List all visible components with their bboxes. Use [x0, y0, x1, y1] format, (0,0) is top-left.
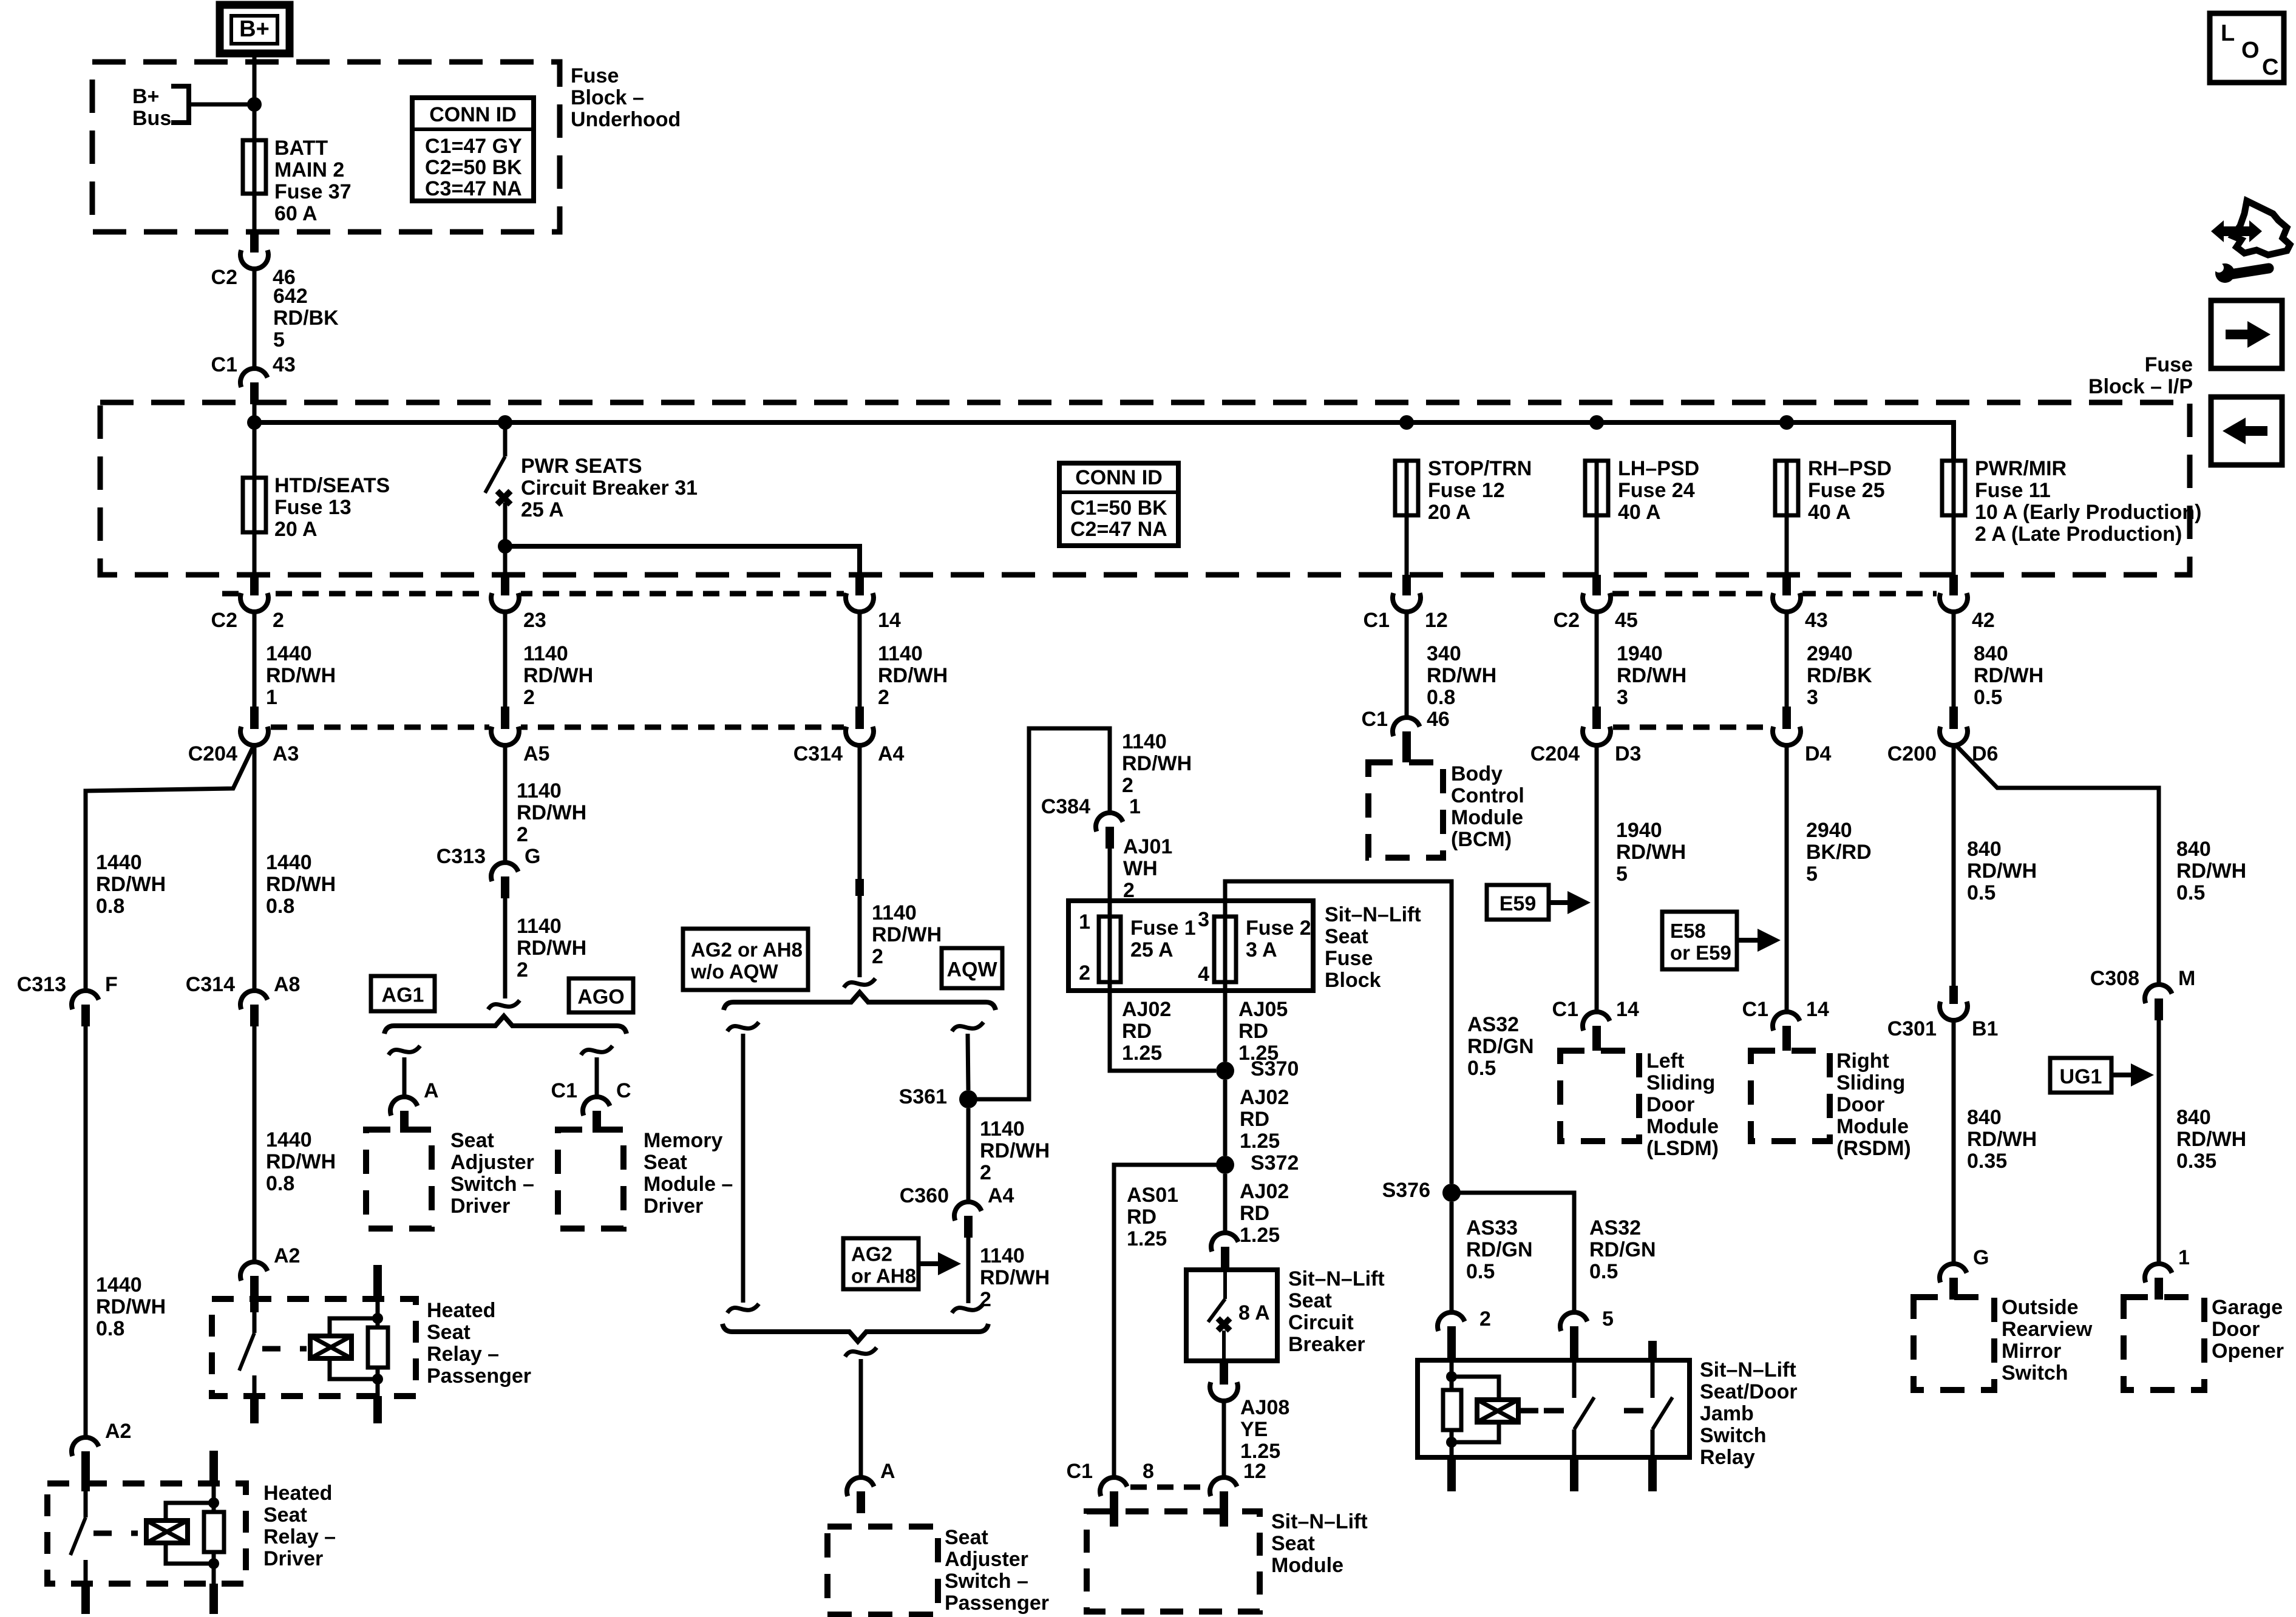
wire 43 to D4: [1785, 611, 1789, 707]
svg-text:RD/WH: RD/WH: [96, 873, 166, 896]
wire A4 stub thin: [858, 896, 862, 977]
wire C360 down: [966, 1238, 971, 1303]
code box AG2 or AH8 w/o AQW: [683, 929, 808, 990]
jamb relay linkage dash: [1518, 1408, 1643, 1414]
connector pin A (seat adjuster passenger): [847, 1460, 895, 1513]
relay driver coil loop bottom: [166, 1543, 214, 1564]
fuse 13 HTD/SEATS: [243, 478, 266, 532]
svg-text:0.5: 0.5: [1467, 1057, 1496, 1080]
wire 340 to C1 46: [1405, 611, 1409, 718]
connector A2 passenger: [240, 1244, 300, 1298]
wire 642 RD/BK 5: [253, 268, 257, 368]
connector C204 pin D3: [1530, 707, 1642, 765]
svg-text:C204: C204: [188, 742, 237, 765]
connector C313 pin F: [17, 973, 118, 1026]
outside rearview mirror switch box: [1914, 1297, 1994, 1390]
svg-text:0.8: 0.8: [1427, 686, 1455, 709]
wire C2-2 to C204-A3: [253, 611, 257, 707]
sit-n-lift seat module box: [1087, 1511, 1260, 1612]
svg-text:AJ02: AJ02: [1240, 1086, 1289, 1109]
connector C204 pin A3: [188, 707, 299, 765]
connector pin 5: [1560, 1312, 1588, 1360]
wire 14 to A4: [858, 611, 862, 707]
wire D6 branch right: [1956, 745, 2159, 986]
svg-text:5: 5: [1616, 863, 1628, 886]
svg-text:840: 840: [1967, 838, 2002, 861]
svg-text:60 A: 60 A: [274, 202, 318, 225]
svg-text:2940: 2940: [1806, 819, 1852, 842]
svg-text:1: 1: [1079, 910, 1090, 934]
splice S370: [1216, 1062, 1234, 1080]
svg-text:Seat: Seat: [945, 1526, 988, 1549]
svg-text:14: 14: [1616, 998, 1639, 1021]
svg-text:MAIN 2: MAIN 2: [274, 158, 344, 181]
code box AG2 or AH8: [843, 1238, 919, 1289]
heated seat relay - passenger box: [212, 1299, 416, 1396]
svg-text:C1: C1: [1067, 1460, 1093, 1483]
wire left drop long: [741, 1034, 746, 1303]
svg-text:Right: Right: [1836, 1049, 1889, 1073]
svg-text:Fuse 2: Fuse 2: [1246, 917, 1311, 940]
relay driver resistor: [204, 1512, 224, 1552]
svg-text:10 A (Early Production): 10 A (Early Production): [1975, 501, 2201, 524]
svg-text:Seat: Seat: [1325, 925, 1368, 948]
svg-text:C313: C313: [436, 845, 486, 868]
svg-text:2: 2: [517, 823, 528, 846]
svg-text:4: 4: [1198, 963, 1209, 986]
svg-text:AJ02: AJ02: [1240, 1180, 1289, 1203]
svg-text:Sit–N–Lift: Sit–N–Lift: [1288, 1267, 1385, 1290]
svg-text:12: 12: [1425, 609, 1448, 632]
jamb relay bottom junction: [1446, 1437, 1457, 1448]
brace AG1/AGO: [384, 1016, 627, 1034]
wire A3 split diagonal: [86, 744, 254, 992]
svg-text:1140: 1140: [1122, 730, 1167, 753]
wire AS33 down: [1450, 1202, 1454, 1314]
svg-text:A2: A2: [105, 1420, 131, 1443]
svg-text:1.25: 1.25: [1240, 1224, 1280, 1247]
LOC legend box: [2210, 13, 2284, 83]
svg-text:1440: 1440: [96, 851, 142, 874]
svg-text:C313: C313: [17, 973, 66, 996]
svg-text:A4: A4: [988, 1184, 1014, 1207]
svg-text:BATT: BATT: [274, 137, 328, 160]
connector pin 12: [1210, 1477, 1237, 1527]
fuse 11 PWR/MIR: [1942, 461, 1965, 515]
jamb relay left out: [1450, 1442, 1454, 1457]
hook above brace AG1: [488, 1000, 520, 1009]
svg-text:0.5: 0.5: [1974, 686, 2002, 709]
hook above brace AQW: [844, 978, 875, 988]
svg-text:Seat: Seat: [644, 1151, 687, 1174]
svg-text:AGO: AGO: [577, 986, 624, 1009]
svg-text:w/o AQW: w/o AQW: [690, 960, 778, 983]
svg-text:20 A: 20 A: [1428, 501, 1471, 524]
svg-text:Relay –: Relay –: [263, 1525, 336, 1548]
svg-text:YE: YE: [1240, 1418, 1268, 1441]
relay driver coil feed stub: [209, 1451, 218, 1483]
svg-text:2: 2: [273, 609, 284, 632]
svg-text:8: 8: [1143, 1460, 1154, 1483]
svg-text:RD/WH: RD/WH: [517, 937, 586, 960]
svg-text:C3=47 NA: C3=47 NA: [425, 177, 522, 200]
svg-text:Jamb: Jamb: [1700, 1402, 1754, 1425]
svg-text:Sliding: Sliding: [1646, 1071, 1715, 1094]
sit-n-lift seat/door jamb switch relay box: [1418, 1360, 1690, 1457]
svg-text:1140: 1140: [878, 642, 923, 665]
svg-text:Control: Control: [1451, 784, 1524, 807]
svg-text:C1=50 BK: C1=50 BK: [1070, 497, 1167, 520]
svg-text:F: F: [105, 973, 118, 996]
junction B+ bus: [247, 97, 262, 112]
svg-text:0.5: 0.5: [1589, 1260, 1618, 1283]
relay passenger resistor wire2: [376, 1368, 380, 1379]
connector pin 43: [1773, 575, 1828, 632]
svg-text:RD/WH: RD/WH: [266, 1150, 336, 1173]
connector C2 pin 45: [1554, 575, 1638, 632]
svg-text:RD: RD: [1240, 1108, 1269, 1131]
connector pin G: [1940, 1246, 1989, 1300]
svg-text:AQW: AQW: [946, 958, 997, 981]
wire D6 down: [1952, 744, 1956, 986]
svg-text:B1: B1: [1972, 1017, 1998, 1040]
svg-text:D6: D6: [1972, 742, 1998, 765]
relay passenger coil out stub: [373, 1396, 382, 1423]
svg-text:Fuse: Fuse: [2145, 353, 2193, 376]
svg-text:AS32: AS32: [1589, 1216, 1641, 1239]
svg-text:840: 840: [1974, 642, 2008, 665]
svg-text:C1: C1: [1364, 609, 1390, 632]
svg-text:40 A: 40 A: [1618, 501, 1661, 524]
svg-text:RD/WH: RD/WH: [2176, 1128, 2246, 1151]
wire 45 to D3: [1595, 611, 1599, 707]
svg-text:Relay –: Relay –: [427, 1343, 499, 1366]
relay passenger top junction: [372, 1313, 383, 1324]
connector row short-dash right: [1612, 591, 1937, 597]
svg-text:L: L: [2221, 21, 2235, 46]
svg-text:46: 46: [1427, 708, 1450, 731]
fuse 24 LH-PSD: [1585, 461, 1608, 515]
connector C360 pin A4: [900, 1184, 1014, 1238]
svg-text:AG1: AG1: [382, 984, 424, 1007]
svg-text:Circuit: Circuit: [1288, 1311, 1354, 1334]
jamb relay resistor wire bottom: [1450, 1430, 1454, 1442]
relay driver coil wire top: [212, 1483, 216, 1503]
wire into fuse 13: [253, 402, 257, 478]
svg-text:Left: Left: [1646, 1049, 1684, 1073]
wire AJ08 YE: [1222, 1400, 1226, 1479]
svg-text:Sliding: Sliding: [1836, 1071, 1905, 1094]
svg-text:1440: 1440: [266, 1128, 312, 1151]
relay passenger coil: [310, 1336, 352, 1358]
svg-text:C2: C2: [1554, 609, 1580, 632]
jamb relay coil: [1477, 1400, 1518, 1422]
svg-text:RD/WH: RD/WH: [523, 664, 593, 687]
svg-text:Seat: Seat: [1271, 1532, 1315, 1555]
connector A2 driver: [72, 1420, 131, 1473]
connector pin 42: [1940, 575, 1995, 632]
svg-text:1140: 1140: [980, 1244, 1025, 1267]
svg-text:A3: A3: [273, 742, 299, 765]
wire F down: [84, 1026, 88, 1439]
svg-text:Heated: Heated: [263, 1482, 332, 1505]
svg-text:5: 5: [273, 328, 285, 351]
svg-text:Driver: Driver: [263, 1547, 323, 1570]
wire 2940 D4 down: [1785, 744, 1789, 1013]
svg-text:1440: 1440: [266, 642, 312, 665]
svg-text:G: G: [525, 845, 540, 868]
svg-text:(BCM): (BCM): [1451, 828, 1512, 851]
svg-text:RD: RD: [1122, 1020, 1152, 1043]
svg-text:0.8: 0.8: [96, 895, 124, 918]
svg-text:Fuse 24: Fuse 24: [1618, 479, 1695, 502]
svg-text:2 A (Late Production): 2 A (Late Production): [1975, 523, 2182, 546]
wire AJ05 fuse2 out: [1223, 982, 1228, 1062]
wire A8 down: [253, 1026, 257, 1263]
svg-text:2: 2: [980, 1161, 991, 1184]
relay driver linkage dash: [93, 1531, 138, 1536]
sit-n-lift seat fuse block box: [1068, 901, 1313, 991]
svg-text:8 A: 8 A: [1238, 1301, 1270, 1324]
svg-text:14: 14: [1806, 998, 1829, 1021]
module row short-dash: [1130, 1485, 1209, 1490]
relay passenger resistor wire: [376, 1318, 380, 1327]
svg-text:E58: E58: [1670, 920, 1706, 942]
fuse block - underhood dashed box: [92, 62, 560, 232]
relay driver coil: [146, 1520, 188, 1543]
wire fuse 11 out: [1952, 515, 1956, 575]
wire AJ02 S370-S372: [1223, 1080, 1228, 1156]
arrow left legend box: [2211, 397, 2282, 465]
hook bottom left drop: [727, 1304, 759, 1313]
svg-text:1: 1: [266, 686, 277, 709]
svg-text:5: 5: [1806, 863, 1818, 886]
splice S372: [1216, 1156, 1234, 1174]
code box E58 or E59: [1662, 912, 1737, 969]
wire M down: [2157, 1020, 2161, 1265]
svg-text:S361: S361: [899, 1085, 947, 1108]
svg-text:AJ05: AJ05: [1238, 998, 1288, 1021]
svg-text:RD/BK: RD/BK: [273, 307, 339, 330]
svg-text:1940: 1940: [1617, 642, 1663, 665]
svg-text:HTD/SEATS: HTD/SEATS: [274, 474, 390, 497]
svg-text:Breaker: Breaker: [1288, 1333, 1365, 1356]
left sliding door module box: [1560, 1051, 1639, 1141]
svg-text:AS32: AS32: [1467, 1013, 1519, 1036]
svg-text:RD/GN: RD/GN: [1589, 1238, 1656, 1261]
svg-text:B+: B+: [239, 16, 270, 42]
svg-text:A: A: [424, 1079, 439, 1102]
wire right drop to S361: [968, 1034, 968, 1090]
svg-text:43: 43: [1805, 609, 1828, 632]
conn id table underhood: [412, 98, 534, 201]
svg-text:Garage: Garage: [2212, 1296, 2283, 1319]
svg-text:1.25: 1.25: [1122, 1042, 1162, 1065]
svg-text:3 A: 3 A: [1246, 938, 1277, 961]
svg-text:0.35: 0.35: [1967, 1150, 2007, 1173]
jamb relay coil branch: [1450, 1360, 1454, 1372]
connector pin A5: [491, 707, 549, 765]
svg-text:RD/WH: RD/WH: [266, 873, 336, 896]
jamb relay resistor wire top: [1450, 1377, 1454, 1390]
svg-text:Passenger: Passenger: [945, 1592, 1049, 1615]
svg-text:Memory: Memory: [644, 1129, 722, 1152]
fuse 1 25A: [1099, 917, 1121, 982]
svg-text:A: A: [880, 1460, 895, 1483]
svg-text:3: 3: [1198, 908, 1209, 931]
connector C1 pin 8: [1100, 1477, 1127, 1527]
svg-text:Switch: Switch: [2002, 1361, 2068, 1385]
svg-text:AJ02: AJ02: [1122, 998, 1171, 1021]
wire G down: [503, 898, 508, 998]
svg-text:0.35: 0.35: [2176, 1150, 2216, 1173]
svg-text:Sit–N–Lift: Sit–N–Lift: [1271, 1510, 1368, 1533]
connector C313 pin G: [436, 845, 541, 898]
garage door opener box: [2124, 1297, 2204, 1390]
svg-text:G: G: [1973, 1246, 1989, 1269]
brace collect to A: [722, 1324, 988, 1341]
svg-text:3: 3: [1617, 686, 1628, 709]
svg-text:C301: C301: [1887, 1017, 1937, 1040]
heated seat relay - driver box: [47, 1483, 246, 1584]
svg-text:AJ01: AJ01: [1123, 835, 1172, 858]
connector pin 1: [2145, 1246, 2190, 1300]
svg-text:2: 2: [523, 686, 535, 709]
svg-text:Bus: Bus: [132, 107, 171, 130]
svg-text:Switch –: Switch –: [945, 1570, 1028, 1593]
fuse block - I/P dashed box: [100, 402, 2190, 575]
wire A4 stub above brace: [855, 879, 864, 896]
svg-text:0.8: 0.8: [266, 1172, 294, 1195]
svg-text:1140: 1140: [517, 779, 562, 802]
wire S361 down: [966, 1108, 971, 1203]
sit-n-lift breaker switch: [1208, 1270, 1230, 1361]
connector out of breaker: [1210, 1361, 1238, 1401]
svg-text:RD/WH: RD/WH: [980, 1139, 1050, 1162]
hook right drop AGO: [581, 1046, 613, 1055]
svg-text:Module –: Module –: [644, 1173, 733, 1196]
svg-text:STOP/TRN: STOP/TRN: [1428, 457, 1532, 480]
svg-text:C1: C1: [211, 353, 237, 376]
power feed B+ symbol: [220, 5, 290, 53]
jamb relay resistor: [1443, 1390, 1461, 1430]
svg-text:0.8: 0.8: [266, 895, 294, 918]
wire fuse 12 out: [1405, 515, 1409, 575]
breaker 31 contact x: [497, 491, 511, 504]
connector pin D4: [1773, 707, 1832, 765]
relay passenger bottom junction: [372, 1374, 383, 1385]
hook left drop AG1: [389, 1046, 420, 1055]
row1 arc-gap masks: [239, 586, 1969, 601]
svg-text:Door: Door: [2212, 1318, 2260, 1341]
svg-text:642: 642: [273, 285, 308, 308]
svg-text:Seat: Seat: [450, 1129, 494, 1152]
relay passenger coil loop: [330, 1318, 378, 1336]
svg-text:0.5: 0.5: [1466, 1260, 1495, 1283]
connector C384 pin 1: [1041, 795, 1141, 849]
relay driver coil loop: [166, 1503, 214, 1520]
svg-text:Module: Module: [1646, 1115, 1719, 1138]
svg-text:C1=47 GY: C1=47 GY: [425, 135, 522, 158]
svg-text:RD/BK: RD/BK: [1807, 664, 1872, 687]
svg-text:Heated: Heated: [427, 1299, 495, 1322]
splice S361: [959, 1090, 977, 1108]
wire 12 to C1-46: [1405, 611, 1409, 718]
svg-text:2: 2: [517, 958, 528, 981]
connector C200 pin D6: [1887, 707, 1999, 765]
splice S376: [1442, 1184, 1461, 1202]
code box AGO: [569, 978, 633, 1012]
svg-text:RD/WH: RD/WH: [1974, 664, 2043, 687]
svg-text:RD/WH: RD/WH: [517, 801, 586, 824]
connector C2 pin 46: [211, 232, 296, 289]
svg-text:RD: RD: [1240, 1202, 1269, 1225]
hook left drop w/o AQW: [727, 1022, 759, 1031]
svg-text:Adjuster: Adjuster: [945, 1548, 1028, 1571]
connector C301 pin B1: [1887, 986, 1999, 1040]
connector C1 pin 43: [240, 368, 268, 404]
body control module box: [1368, 762, 1443, 858]
wire A5 to C313 G: [503, 744, 508, 864]
svg-text:RD/GN: RD/GN: [1467, 1035, 1534, 1058]
conn id table I/P: [1059, 463, 1178, 546]
row2 arc-gap masks: [489, 720, 1802, 734]
svg-text:Module: Module: [1271, 1554, 1343, 1577]
svg-text:Fuse 12: Fuse 12: [1428, 479, 1505, 502]
svg-text:Door: Door: [1646, 1093, 1694, 1116]
circuit breaker 31 PWR SEATS: [485, 422, 511, 575]
svg-text:2: 2: [1079, 961, 1090, 985]
wire AJ02 fuse1 out: [1110, 982, 1216, 1071]
svg-text:C2=50 BK: C2=50 BK: [425, 156, 522, 179]
jamb relay coil loop bottom: [1452, 1422, 1499, 1442]
svg-text:M: M: [2178, 967, 2195, 990]
junction bus at fuse 13: [247, 415, 262, 430]
fuse 25 RH-PSD: [1775, 461, 1798, 515]
relay driver bottom junction: [208, 1558, 219, 1569]
relay passenger coil loop bottom: [330, 1358, 378, 1379]
jamb relay switch 2 feed stub: [1648, 1341, 1657, 1360]
brace AQW: [724, 992, 996, 1010]
svg-text:C308: C308: [2090, 967, 2139, 990]
svg-text:E59: E59: [1500, 892, 1537, 915]
wire 42 to D6: [1952, 611, 1956, 707]
wire B+ to fuse 37: [253, 53, 257, 140]
connector into sit-n-lift breaker: [1211, 1233, 1238, 1270]
svg-text:Seat: Seat: [263, 1503, 307, 1527]
connector pin 14: [846, 575, 901, 632]
svg-text:or AH8: or AH8: [851, 1265, 916, 1287]
svg-text:25 A: 25 A: [521, 498, 564, 521]
svg-text:Seat/Door: Seat/Door: [1700, 1380, 1798, 1403]
svg-text:C2=47 NA: C2=47 NA: [1070, 518, 1167, 541]
svg-text:Fuse 13: Fuse 13: [274, 496, 352, 519]
relay passenger coil feed stub: [373, 1265, 382, 1299]
svg-text:RD/WH: RD/WH: [1617, 664, 1686, 687]
bus top I/P: [254, 422, 1954, 461]
svg-text:RD/WH: RD/WH: [1427, 664, 1496, 687]
connector C1 pin C: [551, 1079, 631, 1133]
svg-text:RD: RD: [1238, 1020, 1268, 1043]
svg-text:0.5: 0.5: [2176, 881, 2205, 904]
svg-text:RD/WH: RD/WH: [1967, 859, 2037, 883]
arrow UG1 to wire: [2111, 1073, 2136, 1077]
svg-text:1: 1: [1129, 795, 1141, 818]
relay driver resistor wire: [212, 1503, 216, 1512]
svg-text:Underhood: Underhood: [571, 108, 681, 131]
svg-text:Fuse: Fuse: [1325, 947, 1373, 970]
svg-text:5: 5: [1602, 1307, 1614, 1331]
